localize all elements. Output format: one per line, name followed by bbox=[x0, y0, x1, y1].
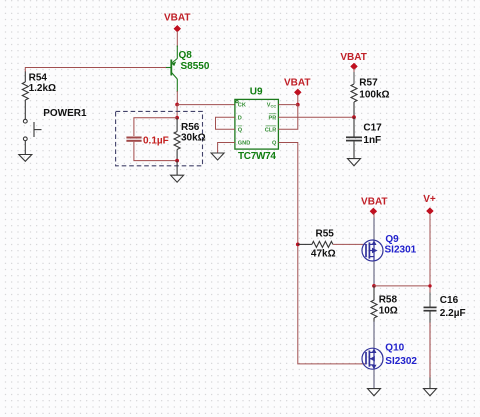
wire R58 to Q10 drain bbox=[373, 322, 375, 349]
wire Q10 source to ground bbox=[373, 369, 375, 388]
node A junction (collector/R56/CK) bbox=[175, 103, 179, 107]
svg-text:Q9: Q9 bbox=[385, 234, 399, 245]
svg-text:R57: R57 bbox=[359, 78, 378, 89]
node C junction (cap/R56 bottom) bbox=[175, 159, 179, 163]
power VBAT node above R57 bbox=[340, 52, 366, 70]
wire U9 PR to R57/C17 node bbox=[278, 116, 354, 118]
svg-text:CLR: CLR bbox=[265, 127, 277, 133]
svg-text:VBAT: VBAT bbox=[164, 12, 190, 23]
svg-text:VBAT: VBAT bbox=[340, 52, 366, 63]
wire Vcc node down to CLR bbox=[278, 105, 297, 130]
capacitor C17 1nF bbox=[346, 117, 362, 158]
wire Vcc pin bbox=[278, 104, 297, 106]
svg-text:C17: C17 bbox=[363, 123, 382, 134]
wire U9 D to Qbar feedback loop bbox=[216, 117, 235, 129]
ground below POWER1 bbox=[19, 155, 32, 162]
power VBAT node above U9 bbox=[284, 78, 310, 96]
svg-text:30kΩ: 30kΩ bbox=[181, 133, 206, 144]
wire U9 Q output down to gates bbox=[278, 143, 366, 364]
ground below C16 bbox=[424, 389, 437, 396]
wire VBAT3 to R57 bbox=[353, 69, 355, 73]
svg-text:Q: Q bbox=[272, 141, 277, 147]
wire node A down to node B bbox=[176, 105, 178, 118]
wire at R54 top bbox=[24, 67, 26, 72]
svg-text:R56: R56 bbox=[181, 122, 200, 133]
node D junction (R57/C17/PR) bbox=[352, 115, 356, 119]
switch POWER1 bbox=[23, 119, 41, 154]
wire node C to ground bbox=[176, 161, 178, 176]
power V+ node bbox=[423, 194, 436, 214]
wire Q8 collector down to node A bbox=[176, 91, 178, 105]
wire node A to U9 CK bbox=[177, 104, 235, 106]
svg-text:VBAT: VBAT bbox=[361, 196, 387, 207]
svg-text:V+: V+ bbox=[423, 194, 436, 205]
ground below R56 bbox=[171, 175, 184, 182]
svg-text:1.2kΩ: 1.2kΩ bbox=[29, 83, 56, 94]
svg-text:PR: PR bbox=[269, 115, 277, 121]
resistor R57 100k bbox=[351, 84, 357, 117]
wire V+ rail horizontal bbox=[374, 285, 430, 287]
svg-text:SI2301: SI2301 bbox=[385, 245, 417, 256]
svg-text:0.1µF: 0.1µF bbox=[143, 136, 169, 147]
power VBAT node above Q9 bbox=[361, 196, 387, 214]
svg-text:VCC: VCC bbox=[267, 103, 277, 109]
node F junction (Q9 drain/R58/V+ rail) bbox=[372, 284, 376, 288]
node E junction (Q/R55/Q10 gate) bbox=[296, 243, 300, 247]
svg-text:Q8: Q8 bbox=[179, 50, 193, 61]
wire Q9 drain to node V+ bbox=[373, 261, 375, 286]
wire Q8 base to R54 bbox=[25, 67, 166, 69]
svg-text:U9: U9 bbox=[250, 87, 263, 98]
wire VBAT2 to Vcc node bbox=[297, 95, 299, 105]
resistor R56 30k bbox=[174, 118, 180, 161]
svg-text:SI2302: SI2302 bbox=[385, 356, 417, 367]
svg-text:POWER1: POWER1 bbox=[43, 108, 87, 119]
svg-text:GND: GND bbox=[238, 141, 250, 147]
ground below Q10 bbox=[368, 389, 381, 396]
transistor Q9 SI2301 (PMOS) bbox=[362, 240, 383, 261]
node B junction (cap/R56 top) bbox=[175, 116, 179, 120]
wire R55 to Q9 gate bbox=[333, 243, 366, 245]
wire VBAT4 to Q9 source bbox=[373, 214, 375, 218]
capacitor 0.1uF bbox=[126, 118, 177, 161]
ground below U9 GND bbox=[211, 153, 224, 160]
resistor R58 10 ohm bbox=[371, 286, 377, 322]
svg-text:VBAT: VBAT bbox=[284, 78, 310, 89]
svg-text:1nF: 1nF bbox=[363, 135, 381, 146]
node Vcc junction bbox=[296, 103, 300, 107]
svg-text:R55: R55 bbox=[316, 228, 335, 239]
svg-text:TC7W74: TC7W74 bbox=[238, 151, 276, 162]
wire V+ down to C16 bbox=[429, 214, 431, 294]
svg-text:Q: Q bbox=[238, 127, 243, 133]
svg-text:10Ω: 10Ω bbox=[379, 305, 398, 316]
power VBAT node above Q8 bbox=[164, 12, 190, 32]
svg-text:100kΩ: 100kΩ bbox=[359, 89, 389, 100]
wire U9 GND pin to ground bbox=[218, 143, 235, 154]
svg-text:Q10: Q10 bbox=[385, 342, 404, 353]
transistor Q8 S8550 (PNP) bbox=[165, 46, 177, 93]
transistor Q10 SI2302 (NMOS) bbox=[362, 348, 383, 369]
wire VBAT to Q8 emitter bbox=[176, 31, 178, 47]
resistor R55 47k bbox=[298, 241, 333, 247]
capacitor C16 2.2uF bbox=[424, 307, 437, 388]
svg-text:2.2µF: 2.2µF bbox=[440, 308, 466, 319]
selection box around C and R56 bbox=[116, 111, 203, 165]
svg-text:47kΩ: 47kΩ bbox=[311, 249, 336, 260]
svg-text:R58: R58 bbox=[379, 294, 398, 305]
ground below C17 bbox=[348, 159, 361, 166]
resistor R54 1.2k bbox=[22, 72, 28, 120]
svg-text:S8550: S8550 bbox=[181, 61, 210, 72]
svg-text:D: D bbox=[238, 115, 242, 121]
svg-text:C16: C16 bbox=[440, 295, 459, 306]
svg-text:CK: CK bbox=[238, 103, 246, 109]
node G junction (V+ rail/C16) bbox=[428, 284, 431, 287]
op IC U9 TC7W74 body bbox=[235, 99, 279, 149]
